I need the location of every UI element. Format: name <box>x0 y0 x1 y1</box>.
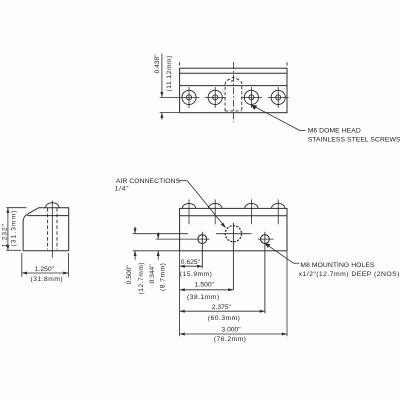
dome screw S2 (front view) <box>209 199 222 224</box>
extension: left edge down <box>179 251 181 336</box>
dim 1.232 extension bottom <box>6 249 21 251</box>
air port horizontal centerline <box>216 233 252 235</box>
dim 3.000 horizontal <box>180 333 287 336</box>
corner tick left <box>179 62 181 65</box>
svg-text:AIR CONNECTIONS: AIR CONNECTIONS <box>116 178 181 185</box>
dome screw S1 (front view) <box>182 199 195 224</box>
screw hole H3 (top view) <box>241 87 262 108</box>
air connection port (dashed circle) <box>225 226 241 242</box>
dim 0.344 vertical <box>157 232 160 259</box>
dim 1.232 dimension line <box>6 208 9 251</box>
svg-text:1/4": 1/4" <box>115 185 130 192</box>
svg-text:(60.3mm): (60.3mm) <box>208 315 241 322</box>
side view hidden screw hole (dashed) <box>48 208 57 250</box>
top view edge line 2 <box>180 72 287 74</box>
dim 1.250 extension left <box>21 253 23 277</box>
svg-text:(38.1mm): (38.1mm) <box>187 294 220 301</box>
leader M6 <box>251 105 305 130</box>
svg-text:0.344": 0.344" <box>149 264 156 284</box>
extension: bottom edge to left <box>133 250 180 252</box>
svg-text:1.250": 1.250" <box>35 266 55 273</box>
svg-text:M6 DOME HEAD: M6 DOME HEAD <box>308 128 361 135</box>
svg-text:(15.9mm): (15.9mm) <box>180 271 213 278</box>
svg-text:x1/2"(12.7mm) DEEP (2NOS): x1/2"(12.7mm) DEEP (2NOS) <box>299 271 400 278</box>
svg-text:STAINLESS STEEL SCREWS: STAINLESS STEEL SCREWS <box>308 137 400 144</box>
dim 0.438 extension line at hole centerline <box>160 96 179 98</box>
side view outline <box>23 208 69 251</box>
front view edge line 2 <box>180 215 287 217</box>
svg-text:(76.2mm): (76.2mm) <box>214 336 247 343</box>
side view top face line <box>27 215 68 217</box>
svg-text:0.438": 0.438" <box>154 54 161 74</box>
top view edge line 3 <box>180 85 287 87</box>
svg-text:(12.7mm): (12.7mm) <box>138 262 145 295</box>
svg-text:1.232": 1.232" <box>1 223 8 247</box>
screw hole H2 (top view) <box>205 87 226 108</box>
dim 1.250 dimension line <box>22 272 69 275</box>
screw hole H1 (top view) <box>179 87 200 108</box>
dim 1.500 horizontal <box>180 288 234 291</box>
side view centerline <box>51 201 53 258</box>
svg-text:(11.12mm): (11.12mm) <box>166 55 173 91</box>
M8 mounting hole right <box>258 232 274 313</box>
dim 0.500 vertical <box>134 227 137 260</box>
extension: M8 CL to left (0.344 dim) <box>156 238 210 240</box>
svg-text:0.500": 0.500" <box>126 265 133 285</box>
corner tick right <box>286 62 288 65</box>
dim 1.232 extension top <box>6 207 26 209</box>
dim 1.250 extension right <box>67 253 69 277</box>
leader AIR CONNECTIONS <box>178 181 226 228</box>
extension: right edge down <box>286 251 288 336</box>
M8 mounting hole left <box>198 232 207 268</box>
svg-text:2.375": 2.375" <box>212 304 232 311</box>
svg-text:1.500": 1.500" <box>195 281 215 288</box>
extension: air CL to left (0.500 dim) <box>133 233 188 235</box>
svg-text:(31.3mm): (31.3mm) <box>11 209 18 246</box>
dome screw S3 (front view) <box>245 199 258 224</box>
leader M8 <box>265 243 300 263</box>
svg-text:0.625": 0.625" <box>181 259 201 266</box>
svg-text:(31.8mm): (31.8mm) <box>31 276 64 283</box>
svg-text:3.000": 3.000" <box>222 327 242 334</box>
dim 2.375 horizontal <box>180 310 265 313</box>
side view dome screw <box>46 203 60 208</box>
front view body outline <box>180 208 287 250</box>
dim 0.625 horizontal <box>180 265 203 268</box>
dome screw S4 (front view) <box>272 199 285 224</box>
top view body outline <box>180 68 287 113</box>
top view vertical centerline (dash-dot) <box>232 62 234 122</box>
hidden port feature (dashed) top view <box>225 77 242 111</box>
svg-text:M8 MOUNTING HOLES: M8 MOUNTING HOLES <box>300 262 375 269</box>
screw hole H4 (top view) <box>268 87 289 108</box>
air port vertical centerline (extends to 1.500 dim) <box>232 223 234 290</box>
dim 0.438 extension line at bottom edge <box>160 112 179 114</box>
dim 0.438 dimension line + arrows <box>160 54 163 120</box>
svg-text:(8.7mm): (8.7mm) <box>160 263 167 291</box>
